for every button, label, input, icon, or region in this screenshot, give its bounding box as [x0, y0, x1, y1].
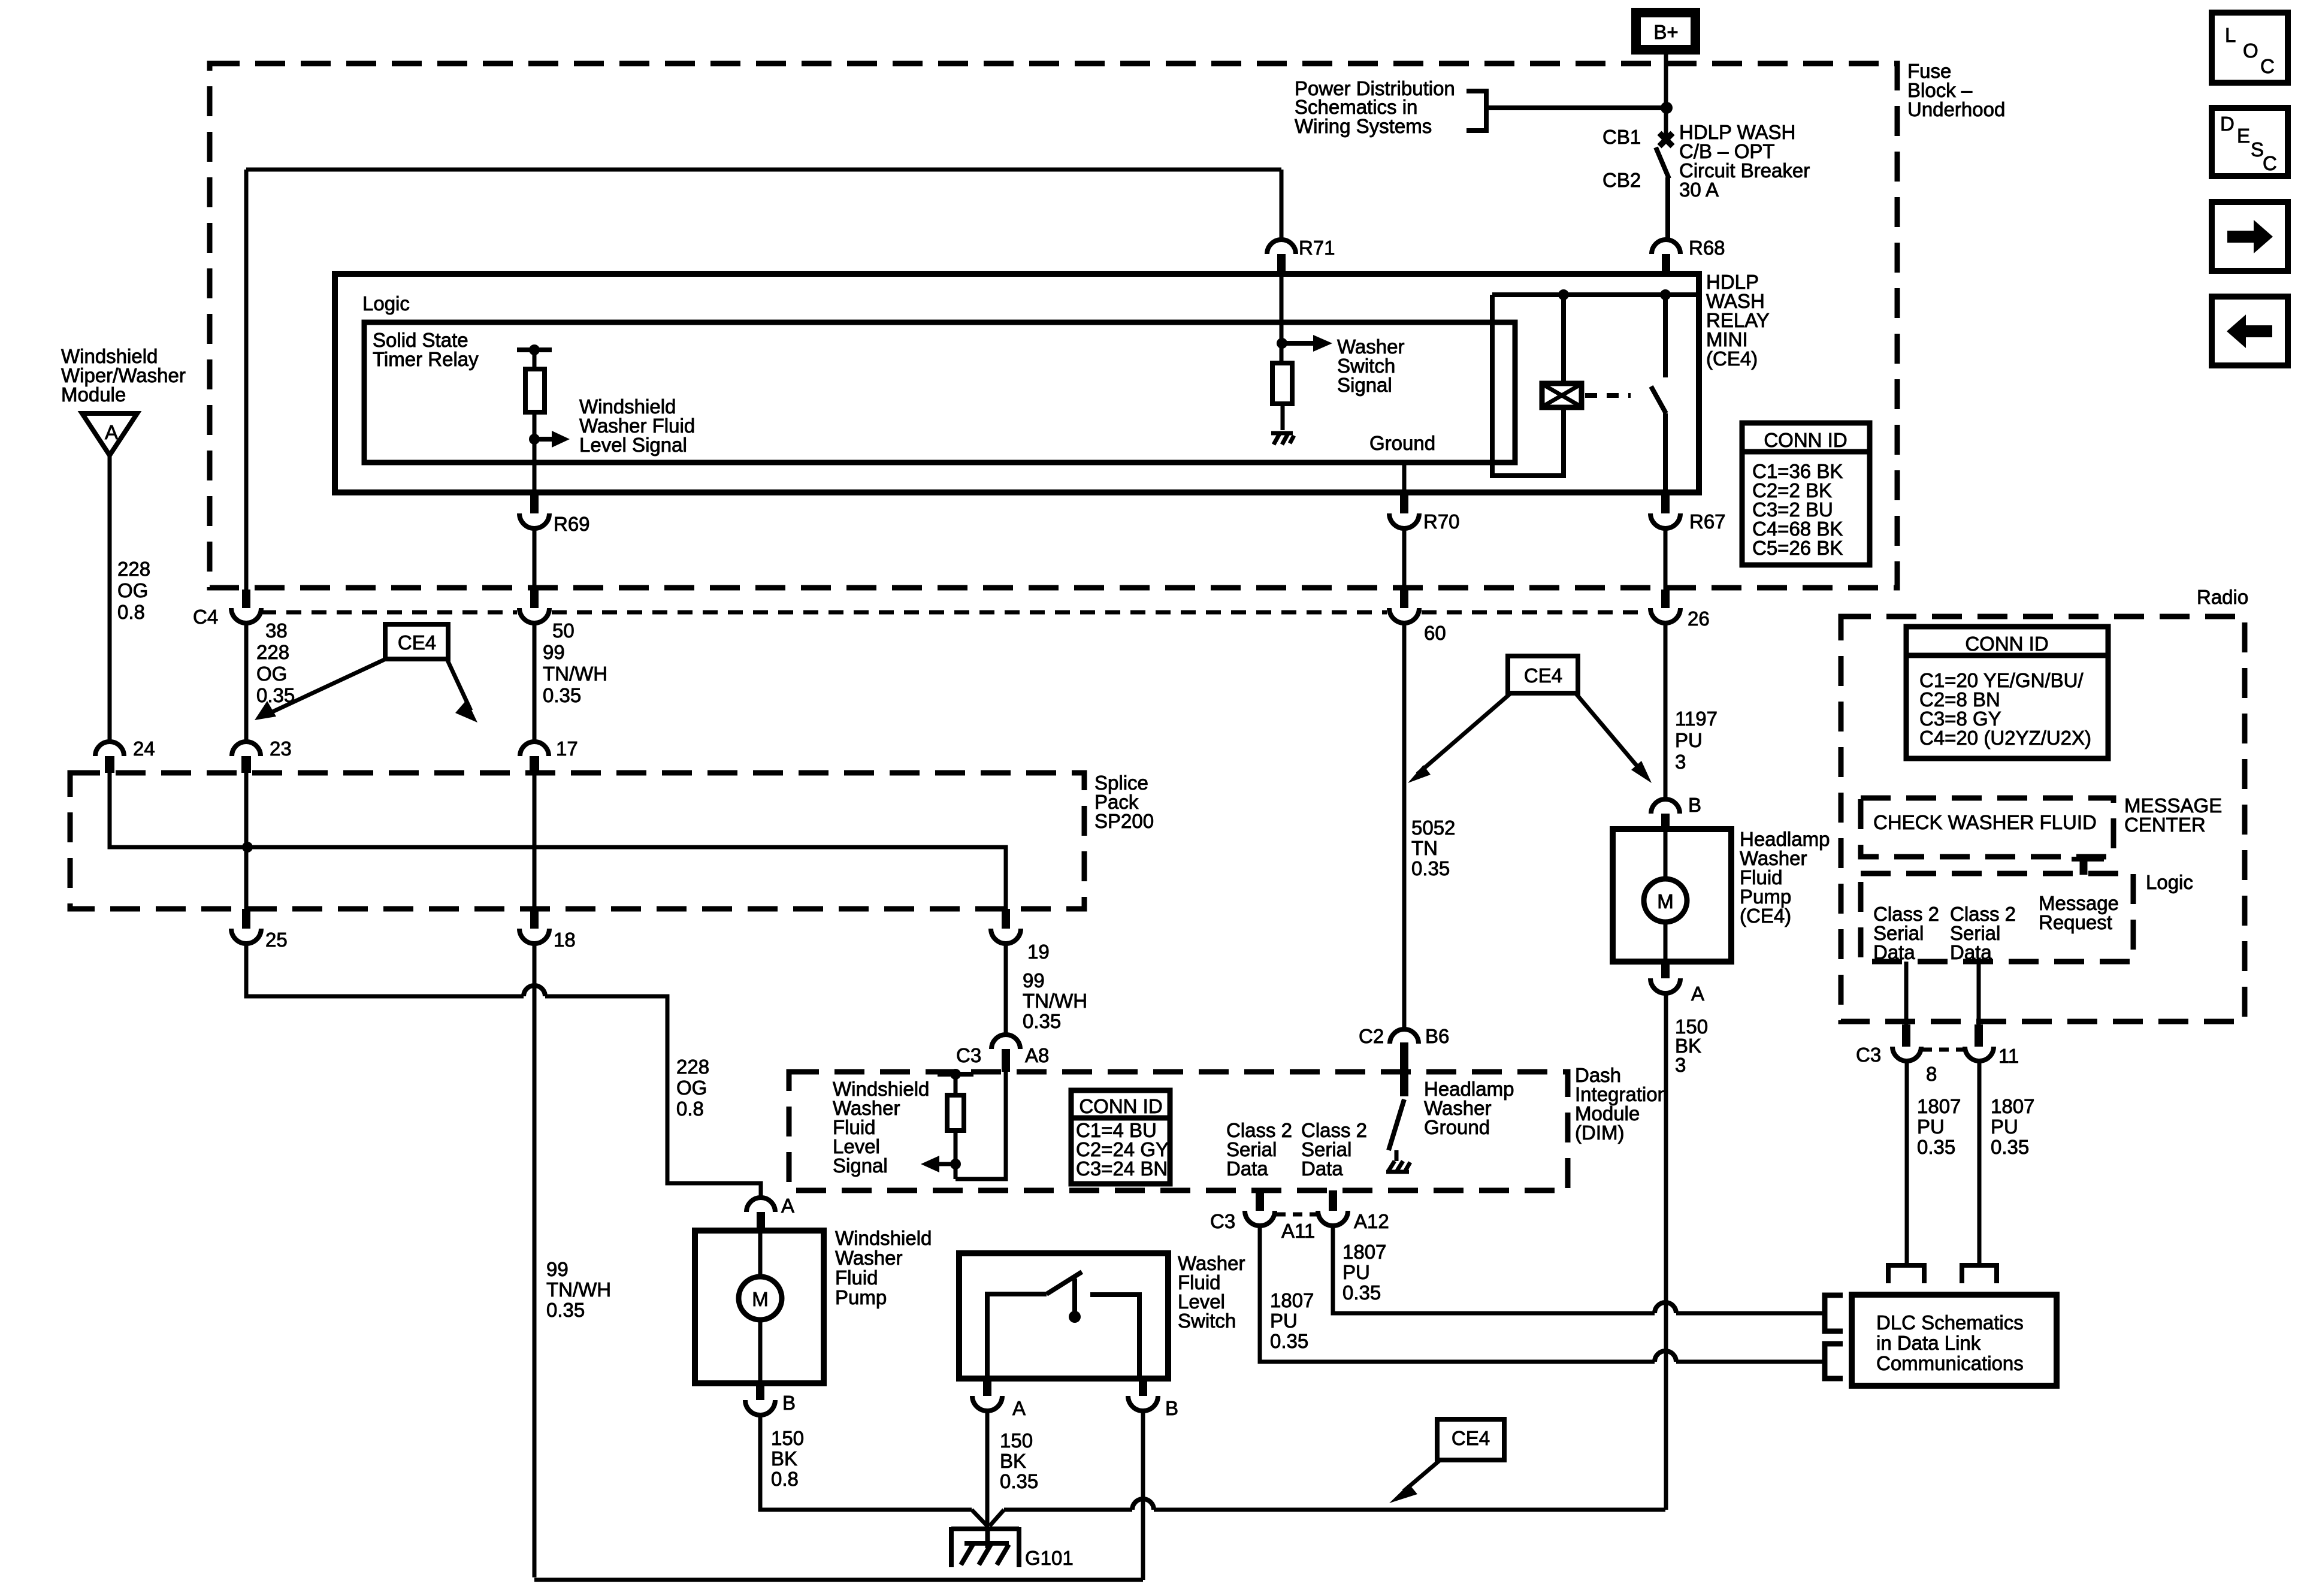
svg-text:CHECK WASHER FLUID: CHECK WASHER FLUID: [1873, 811, 2097, 833]
svg-text:C: C: [2260, 55, 2275, 77]
svg-text:S: S: [2251, 138, 2264, 161]
svg-text:0.35: 0.35: [1000, 1470, 1038, 1492]
svg-text:26: 26: [1688, 607, 1710, 630]
svg-text:228: 228: [117, 558, 150, 580]
svg-text:R68: R68: [1689, 237, 1725, 259]
svg-text:OG: OG: [676, 1077, 707, 1099]
svg-text:CENTER: CENTER: [2124, 814, 2206, 836]
svg-text:3: 3: [1675, 751, 1686, 773]
svg-text:0.35: 0.35: [1917, 1136, 1955, 1158]
svg-text:Switch: Switch: [1178, 1310, 1236, 1332]
svg-text:A12: A12: [1354, 1210, 1389, 1232]
svg-text:99: 99: [1023, 969, 1045, 992]
svg-text:0.35: 0.35: [1411, 857, 1450, 879]
svg-text:C: C: [2263, 152, 2277, 174]
svg-text:8: 8: [1926, 1063, 1937, 1085]
svg-text:Timer Relay: Timer Relay: [373, 348, 479, 370]
svg-text:Signal: Signal: [1337, 374, 1392, 396]
svg-text:99: 99: [546, 1258, 569, 1280]
svg-text:Wiring Systems: Wiring Systems: [1295, 115, 1432, 137]
svg-text:1807: 1807: [1917, 1095, 1961, 1117]
svg-text:L: L: [2225, 24, 2236, 46]
svg-text:CE4: CE4: [398, 631, 436, 654]
svg-text:B: B: [782, 1392, 796, 1414]
svg-text:CE4: CE4: [1452, 1427, 1490, 1449]
svg-text:C3: C3: [1210, 1210, 1235, 1232]
svg-text:A: A: [1691, 983, 1704, 1005]
svg-text:Ground: Ground: [1424, 1116, 1490, 1138]
svg-text:Signal: Signal: [833, 1154, 888, 1177]
svg-text:30 A: 30 A: [1679, 179, 1719, 201]
svg-text:CONN ID: CONN ID: [1965, 633, 2048, 655]
svg-text:0.35: 0.35: [546, 1299, 585, 1321]
svg-text:Data: Data: [1301, 1157, 1343, 1180]
svg-text:C4=20 (U2YZ/U2X): C4=20 (U2YZ/U2X): [1919, 727, 2091, 749]
svg-text:C4: C4: [193, 606, 218, 628]
svg-text:Module: Module: [61, 383, 126, 406]
svg-text:0.35: 0.35: [543, 684, 581, 706]
svg-text:PU: PU: [1917, 1116, 1945, 1138]
svg-text:Washer: Washer: [835, 1247, 902, 1269]
svg-text:C3: C3: [1856, 1044, 1881, 1066]
svg-text:Request: Request: [2039, 911, 2112, 933]
svg-text:Underhood: Underhood: [1907, 98, 2005, 120]
svg-text:Data: Data: [1873, 941, 1915, 963]
svg-text:BK: BK: [771, 1447, 797, 1470]
svg-text:Ground: Ground: [1369, 432, 1435, 454]
svg-text:C3=24 BN: C3=24 BN: [1076, 1157, 1168, 1180]
svg-text:228: 228: [676, 1056, 709, 1078]
svg-text:DLC Schematics: DLC Schematics: [1876, 1311, 2024, 1334]
svg-text:C3: C3: [956, 1044, 981, 1066]
svg-text:CE4: CE4: [1524, 664, 1562, 687]
svg-text:Logic: Logic: [362, 292, 410, 315]
svg-text:23: 23: [270, 737, 292, 760]
svg-text:G101: G101: [1025, 1547, 1074, 1569]
svg-text:Fluid: Fluid: [835, 1266, 878, 1289]
svg-text:11: 11: [1998, 1045, 2019, 1067]
svg-text:B: B: [1165, 1397, 1178, 1419]
svg-text:3: 3: [1675, 1054, 1686, 1076]
svg-text:19: 19: [1027, 941, 1050, 963]
svg-text:A: A: [105, 421, 118, 443]
svg-text:0.35: 0.35: [1991, 1136, 2029, 1158]
svg-text:A: A: [1012, 1397, 1026, 1419]
svg-text:PU: PU: [1342, 1261, 1370, 1283]
svg-text:B: B: [1688, 794, 1701, 816]
svg-text:1807: 1807: [1991, 1095, 2034, 1117]
svg-text:Communications: Communications: [1876, 1352, 2024, 1374]
svg-text:24: 24: [133, 737, 155, 760]
svg-text:0.35: 0.35: [1270, 1330, 1308, 1352]
svg-text:CB1: CB1: [1602, 126, 1641, 148]
svg-text:A: A: [781, 1195, 794, 1217]
svg-text:Logic: Logic: [2146, 871, 2193, 893]
svg-text:17: 17: [556, 737, 578, 760]
svg-text:PU: PU: [1675, 729, 1703, 751]
svg-text:99: 99: [543, 641, 565, 663]
svg-text:B+: B+: [1653, 21, 1678, 43]
svg-text:OG: OG: [117, 579, 148, 601]
svg-text:Radio: Radio: [2197, 586, 2248, 608]
svg-text:1807: 1807: [1342, 1241, 1386, 1263]
svg-text:Data: Data: [1950, 941, 1992, 963]
svg-text:0.8: 0.8: [676, 1098, 704, 1120]
svg-text:(CE4): (CE4): [1740, 905, 1791, 927]
svg-text:A8: A8: [1025, 1044, 1049, 1066]
svg-text:in Data Link: in Data Link: [1876, 1332, 1981, 1354]
svg-text:E: E: [2237, 125, 2250, 147]
svg-text:CONN ID: CONN ID: [1764, 429, 1847, 451]
svg-text:R67: R67: [1689, 510, 1726, 533]
svg-text:0.35: 0.35: [1342, 1281, 1381, 1304]
svg-text:1197: 1197: [1675, 708, 1718, 730]
svg-text:R71: R71: [1299, 237, 1335, 259]
svg-text:R69: R69: [554, 513, 590, 535]
svg-text:1807: 1807: [1270, 1289, 1314, 1311]
svg-text:OG: OG: [256, 663, 287, 685]
svg-text:18: 18: [554, 929, 576, 951]
svg-text:PU: PU: [1270, 1310, 1298, 1332]
svg-text:0.35: 0.35: [1023, 1010, 1061, 1032]
svg-text:50: 50: [552, 619, 574, 642]
svg-text:D: D: [2220, 113, 2234, 135]
svg-text:SP200: SP200: [1094, 810, 1154, 832]
svg-text:PU: PU: [1991, 1116, 2018, 1138]
svg-text:C2: C2: [1359, 1025, 1384, 1047]
svg-text:0.8: 0.8: [117, 601, 145, 623]
svg-text:O: O: [2243, 40, 2258, 62]
svg-text:Pump: Pump: [835, 1286, 887, 1308]
svg-text:150: 150: [1000, 1429, 1033, 1452]
svg-text:Data: Data: [1226, 1157, 1268, 1180]
svg-text:150: 150: [771, 1427, 804, 1449]
svg-text:M: M: [752, 1288, 769, 1310]
svg-text:228: 228: [256, 641, 289, 663]
svg-text:A11: A11: [1281, 1220, 1315, 1242]
svg-text:C5=26 BK: C5=26 BK: [1752, 537, 1843, 559]
svg-text:B6: B6: [1425, 1025, 1449, 1047]
svg-text:60: 60: [1424, 622, 1446, 644]
svg-text:Level Signal: Level Signal: [579, 434, 687, 456]
svg-text:Windshield: Windshield: [835, 1227, 932, 1249]
svg-text:TN/WH: TN/WH: [543, 663, 607, 685]
svg-text:5052: 5052: [1411, 817, 1455, 839]
svg-text:TN/WH: TN/WH: [546, 1278, 611, 1301]
svg-text:CONN ID: CONN ID: [1079, 1095, 1162, 1117]
svg-text:R70: R70: [1423, 510, 1460, 533]
svg-text:0.8: 0.8: [771, 1468, 799, 1490]
svg-text:38: 38: [265, 619, 288, 642]
svg-text:TN/WH: TN/WH: [1023, 990, 1087, 1012]
svg-text:M: M: [1657, 890, 1674, 912]
svg-text:(DIM): (DIM): [1575, 1122, 1624, 1144]
svg-text:TN: TN: [1411, 837, 1438, 859]
svg-text:CB2: CB2: [1602, 169, 1641, 191]
svg-text:BK: BK: [1000, 1450, 1026, 1472]
svg-text:25: 25: [265, 929, 288, 951]
svg-text:(CE4): (CE4): [1706, 347, 1758, 370]
